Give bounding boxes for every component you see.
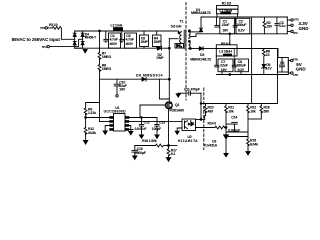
capacitor C13 bbox=[156, 118, 158, 125]
resistor R11 bbox=[225, 104, 227, 107]
ground C11 bbox=[176, 94, 180, 97]
5V sense vertical wire bbox=[277, 49, 279, 104]
resistor R17 bbox=[167, 149, 170, 156]
svg-text:100pF: 100pF bbox=[152, 127, 162, 131]
svg-text:6.2V: 6.2V bbox=[238, 68, 245, 72]
svg-text:DNP: DNP bbox=[141, 40, 149, 44]
svg-text:C13: C13 bbox=[159, 120, 165, 124]
capacitor C8 bbox=[235, 59, 249, 72]
capacitor C6 DNP bbox=[140, 35, 149, 47]
svg-text:TLV431A: TLV431A bbox=[204, 144, 218, 148]
capacitor C7 bbox=[218, 59, 233, 72]
wire U2 right-bottom feedback bbox=[196, 127, 216, 129]
test point TP5 bbox=[288, 60, 290, 62]
3.3V top rail wire bbox=[201, 16, 287, 18]
U1 pins left bbox=[110, 117, 114, 131]
svg-text:TP6: TP6 bbox=[293, 73, 298, 77]
snubber TVS D7 bbox=[175, 44, 184, 49]
svg-text:10k: 10k bbox=[228, 109, 234, 113]
resistor R14 bbox=[215, 126, 225, 129]
svg-text:22uF: 22uF bbox=[222, 23, 230, 27]
resistor R9 bbox=[84, 108, 87, 115]
resistor R12 bbox=[84, 128, 87, 135]
node R7 tap bbox=[99, 30, 101, 32]
resistor R2 bbox=[263, 17, 265, 22]
transistor Q1 bbox=[165, 102, 172, 109]
wire pin1R to gate riser bbox=[129, 117, 157, 119]
ground R17 bbox=[166, 158, 170, 162]
inductor L2 bbox=[114, 28, 123, 31]
wire U2 right-top bbox=[196, 115, 206, 119]
svg-text:DNP: DNP bbox=[154, 40, 162, 44]
resistor R3 bbox=[52, 27, 61, 30]
svg-text:D6 MMSD914: D6 MMSD914 bbox=[136, 74, 163, 78]
svg-text:16V: 16V bbox=[222, 28, 229, 32]
svg-text:R14 0: R14 0 bbox=[208, 122, 217, 126]
optocoupler U2 bbox=[182, 119, 196, 131]
svg-text:6.04k: 6.04k bbox=[250, 142, 258, 146]
svg-text:590: 590 bbox=[264, 109, 270, 113]
capacitor C12 bbox=[141, 118, 143, 125]
wire D6 line bbox=[100, 78, 143, 80]
svg-text:10k: 10k bbox=[250, 109, 256, 113]
wire R12b-R18 join bbox=[248, 118, 261, 120]
svg-text:C9: C9 bbox=[280, 61, 284, 65]
svg-text:400V: 400V bbox=[110, 42, 118, 46]
svg-text:1MEG: 1MEG bbox=[102, 55, 112, 59]
U3 ref wire bbox=[228, 136, 248, 138]
ground R12 bbox=[83, 141, 87, 145]
svg-text:R16 1.50k: R16 1.50k bbox=[142, 139, 157, 143]
resistor R7 bbox=[99, 31, 101, 53]
svg-text:C11 470pF: C11 470pF bbox=[184, 87, 201, 91]
svg-text:TP4: TP4 bbox=[42, 45, 47, 49]
svg-text:C12: C12 bbox=[144, 120, 150, 124]
svg-text:R3 10: R3 10 bbox=[49, 23, 58, 27]
bottom clamp rail wire bbox=[75, 47, 157, 49]
svg-text:85VAC to 265VAC Input: 85VAC to 265VAC Input bbox=[12, 37, 61, 42]
svg-text:R5 6.5: R5 6.5 bbox=[221, 42, 230, 46]
capacitor C10 bbox=[116, 79, 118, 84]
bridge diode bottom-right bbox=[81, 42, 84, 45]
transformer T1 primary winding bbox=[180, 32, 182, 48]
inductor L3 box bbox=[216, 49, 237, 57]
svg-text:UCC28600D: UCC28600D bbox=[104, 109, 127, 113]
center tap wire bbox=[190, 34, 287, 37]
transformer core bbox=[183, 30, 185, 49]
svg-text:FDD1A60: FDD1A60 bbox=[170, 109, 185, 113]
svg-text:MBRA140LT3: MBRA140LT3 bbox=[191, 11, 211, 15]
wire pin4R stub bbox=[129, 129, 133, 131]
svg-text:RH06-T: RH06-T bbox=[85, 35, 97, 39]
inductor L1 box bbox=[217, 9, 239, 14]
resistor R18 bbox=[260, 104, 262, 107]
svg-text:TP2: TP2 bbox=[293, 31, 298, 35]
resistor R8 bbox=[99, 58, 101, 64]
svg-text:16V: 16V bbox=[221, 68, 228, 72]
svg-text:C14: C14 bbox=[231, 116, 237, 120]
wire pin3R to ground bbox=[129, 126, 131, 132]
resistor R12b bbox=[247, 104, 249, 107]
svg-text:1MEG: 1MEG bbox=[102, 67, 112, 71]
wire from GND rail to R5 bbox=[229, 34, 231, 45]
ground at bridge bbox=[75, 47, 83, 49]
wire pin1L to divider bbox=[86, 117, 110, 119]
svg-text:D3: D3 bbox=[200, 53, 204, 57]
output stub bbox=[287, 24, 291, 26]
capacitor C14 bbox=[226, 123, 232, 125]
isolation dashed line secondary bbox=[203, 88, 205, 150]
transformer secondary lower bbox=[189, 42, 191, 49]
resistor R6 bbox=[263, 49, 265, 50]
capacitor C9 bbox=[278, 58, 289, 73]
right vertical of R6 section bbox=[277, 49, 279, 58]
svg-text:5.1V: 5.1V bbox=[265, 67, 272, 71]
svg-text:L1 18uH: L1 18uH bbox=[220, 9, 233, 13]
svg-text:499: 499 bbox=[208, 109, 214, 113]
diode D1 bbox=[191, 31, 201, 33]
resistor R15 bbox=[247, 139, 250, 146]
svg-text:6.2V: 6.2V bbox=[238, 28, 245, 32]
bulk rail wire bbox=[75, 30, 114, 32]
svg-text:1000pF: 1000pF bbox=[135, 151, 147, 155]
5V GND rail wire bbox=[217, 74, 289, 76]
svg-text:MBRA140LT3: MBRA140LT3 bbox=[190, 58, 211, 62]
svg-text:34.8k: 34.8k bbox=[88, 131, 96, 135]
svg-text:TP3: TP3 bbox=[40, 26, 45, 30]
bridge diode bottom-left bbox=[73, 42, 76, 45]
resistor R4 DNP bbox=[153, 35, 162, 47]
Q1 source wire bbox=[168, 109, 170, 149]
test point TP2 bbox=[287, 30, 291, 32]
bridge rectifier D4 legs bbox=[74, 31, 76, 48]
capacitor C3 bbox=[276, 17, 278, 23]
diode D6 bbox=[142, 77, 146, 81]
transformer secondary upper bbox=[189, 32, 191, 39]
svg-text:1.21k: 1.21k bbox=[88, 111, 96, 115]
resistor R16 bbox=[156, 144, 164, 147]
U1 pins right bbox=[125, 117, 129, 131]
resistor R10 bbox=[205, 104, 207, 107]
capacitor C1 bbox=[220, 18, 235, 34]
svg-text:0.022uF: 0.022uF bbox=[228, 128, 241, 132]
svg-text:Q1: Q1 bbox=[175, 103, 180, 107]
5V rail wire bbox=[237, 48, 278, 50]
wire R3 to bridge bbox=[61, 28, 74, 39]
shunt regulator U3 TLV431A bbox=[224, 134, 229, 136]
svg-text:TP5: TP5 bbox=[293, 57, 298, 61]
capacitor C2 bbox=[236, 18, 250, 34]
svg-text:16V: 16V bbox=[119, 88, 126, 92]
diode D2 DNP bbox=[157, 46, 161, 50]
svg-text:H11AB1TA: H11AB1TA bbox=[178, 139, 198, 143]
5V rail wire with D3 bbox=[190, 48, 200, 50]
feedback rail wire bbox=[201, 103, 278, 105]
wire pin3L to ground bbox=[105, 126, 110, 131]
diode D3 bbox=[199, 47, 203, 51]
wire pin2R to opto bbox=[129, 121, 182, 123]
3.3V GND rail junction dot bbox=[229, 33, 231, 35]
wire TP4 to bridge bbox=[47, 45, 49, 47]
capacitor C15 bbox=[134, 146, 136, 151]
snubber wire bbox=[169, 38, 178, 40]
U2 pin ground stub bbox=[177, 128, 182, 131]
resistor R5 box bbox=[216, 45, 237, 49]
wire TP3 to R3 bbox=[45, 27, 47, 29]
bridge diode top-right bbox=[81, 33, 84, 36]
R9 ladder top wire bbox=[86, 103, 100, 109]
svg-text:R1 6.5: R1 6.5 bbox=[222, 1, 231, 5]
wire R16 line bbox=[135, 145, 156, 147]
svg-text:GND: GND bbox=[296, 66, 307, 71]
wire pin2L bbox=[100, 121, 110, 123]
svg-text:L2 1mH: L2 1mH bbox=[111, 23, 123, 27]
gate wire bbox=[140, 104, 165, 106]
IC U1 UCC28600D body bbox=[114, 114, 126, 132]
svg-text:10: 10 bbox=[266, 53, 270, 57]
capacitor C11 bbox=[178, 92, 188, 94]
svg-text:L3 18uH: L3 18uH bbox=[219, 49, 232, 53]
phase dots bbox=[178, 30, 190, 42]
svg-text:150: 150 bbox=[266, 25, 272, 29]
svg-text:T1: T1 bbox=[180, 19, 184, 23]
test point TP1 bbox=[286, 17, 288, 34]
drain vertical wire bbox=[168, 39, 170, 102]
svg-text:0.1u: 0.1u bbox=[279, 24, 285, 28]
clamp return jog bbox=[159, 79, 169, 99]
3.3V sense vertical wire bbox=[251, 17, 253, 104]
capacitor C5 bbox=[125, 33, 137, 48]
svg-text:5.1: 5.1 bbox=[171, 152, 176, 156]
isolation dashed line primary bbox=[185, 3, 187, 101]
svg-text:GND: GND bbox=[299, 26, 310, 31]
svg-text:DNP: DNP bbox=[157, 56, 165, 60]
test point TP6 bbox=[288, 72, 290, 74]
svg-text:5.6 mH: 5.6 mH bbox=[171, 25, 182, 29]
zener D5 bbox=[262, 65, 265, 68]
svg-text:330uF: 330uF bbox=[237, 23, 247, 27]
svg-text:400V: 400V bbox=[126, 42, 134, 46]
capacitor C4 bbox=[109, 33, 121, 48]
bridge diode top-left bbox=[73, 33, 76, 36]
svg-text:0.047uF: 0.047uF bbox=[135, 127, 148, 131]
resistor R1 box bbox=[217, 6, 239, 10]
